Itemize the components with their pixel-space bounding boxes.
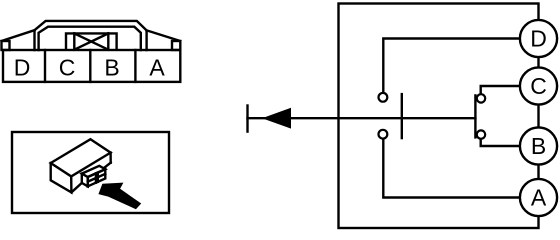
right contact bar (474, 95, 476, 137)
housing right latch ear (172, 41, 180, 50)
relay socket grid vertical divider right (97, 173, 99, 182)
relay socket grid mid horizontal (88, 174, 106, 182)
relay socket top face (82, 166, 106, 177)
wire: terminal A to lower contact (383, 139, 520, 198)
terminal divider D/C (44, 50, 46, 82)
relay body top face (51, 139, 111, 176)
svg-text:B: B (104, 55, 119, 81)
connector face view terminal row outline (3, 50, 180, 82)
relay body bottom right edge (71, 163, 110, 193)
insertion arrow (98, 183, 141, 210)
relay pictogram frame (12, 132, 169, 213)
svg-text:C: C (59, 55, 76, 81)
switch blade bar (401, 94, 403, 138)
upper contact point (D side) (379, 93, 388, 102)
svg-text:D: D (530, 26, 547, 52)
terminal divider B/A (134, 50, 136, 82)
keyway cross line 2 (74, 33, 108, 49)
lower contact point (A side) (379, 130, 388, 139)
wire: terminal D to upper contact (383, 39, 520, 93)
svg-text:A: A (149, 55, 165, 81)
svg-text:C: C (530, 73, 547, 99)
keyway cross line 1 (74, 33, 108, 49)
terminal divider C/B (89, 50, 91, 82)
housing left latch ear (2, 41, 10, 50)
keyway box (66, 33, 117, 49)
housing right slope line (147, 30, 181, 41)
relay socket grid vertical divider left (95, 173, 97, 182)
keyway inner left edge (73, 33, 75, 49)
lower right contact point (B side) (477, 130, 485, 138)
relay body left face (51, 163, 72, 192)
housing outer outline (35, 21, 147, 50)
keyway inner right edge (107, 33, 109, 49)
feed arrowhead (262, 108, 291, 129)
terminal D circle (520, 20, 557, 57)
upper right contact point (C side) (477, 94, 485, 102)
relay socket grid face (88, 169, 106, 186)
terminal B circle (520, 127, 557, 164)
relay body right edge (109, 153, 111, 163)
svg-text:A: A (531, 185, 547, 211)
schematic boundary rectangle (339, 4, 539, 229)
svg-text:B: B (531, 133, 546, 159)
feed terminator bar (246, 106, 248, 132)
wire: terminal C to upper right contact (481, 86, 520, 94)
relay socket left face (82, 174, 88, 187)
wire: common feed line (248, 117, 476, 119)
svg-text:D: D (14, 55, 31, 81)
wire: terminal B to lower right contact (481, 139, 520, 146)
terminal C circle (520, 67, 557, 104)
housing inner outline (39, 27, 141, 50)
housing left slope line (2, 30, 35, 41)
terminal A circle (520, 179, 557, 216)
